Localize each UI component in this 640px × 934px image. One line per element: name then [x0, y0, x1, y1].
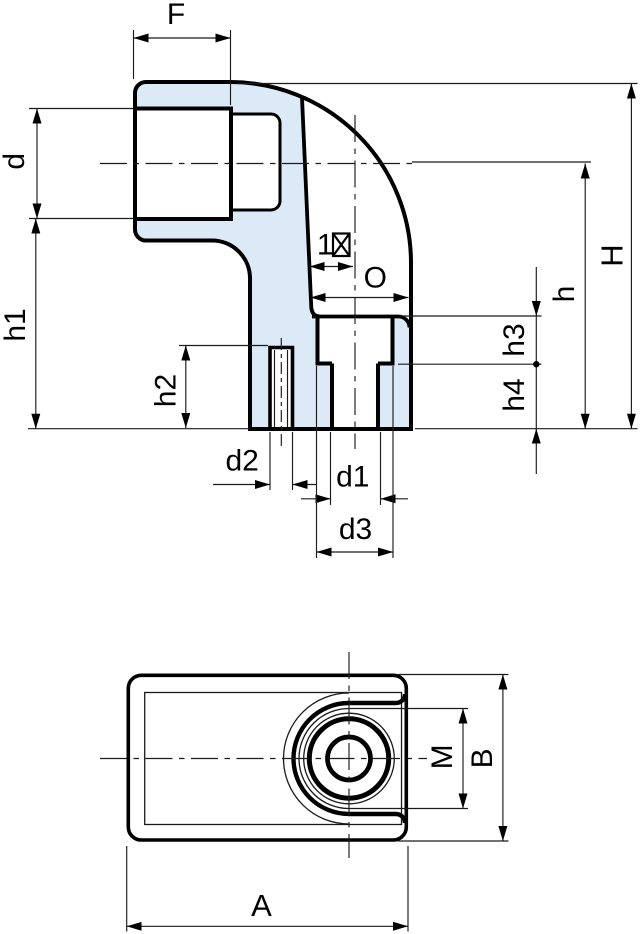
dimension h	[412, 162, 591, 429]
leg centerline	[354, 115, 356, 449]
body outline	[135, 82, 411, 429]
white inner socket bore	[231, 114, 280, 210]
dimension M	[406, 709, 468, 809]
dimension 1x chamfer	[310, 266, 354, 268]
lower bore walls d1	[332, 364, 378, 430]
dimension h1	[28, 219, 250, 429]
bore circle (thick)	[328, 737, 371, 780]
bottom face edge	[249, 427, 411, 431]
svg-text:O: O	[364, 262, 387, 295]
white counterbore	[318, 317, 393, 364]
boss circle (thick)	[309, 719, 388, 798]
horizontal centerline	[100, 758, 427, 760]
boss inner U (thin)	[299, 709, 406, 809]
svg-text:B: B	[466, 748, 499, 768]
socket inner bore outline	[231, 114, 280, 210]
dimension d	[29, 109, 133, 219]
svg-text:A: A	[251, 888, 272, 923]
svg-text:d1: d1	[336, 461, 369, 494]
svg-text:H: H	[595, 244, 630, 266]
svg-text:1: 1	[317, 229, 334, 262]
svg-text:h3: h3	[498, 323, 531, 356]
thin circle	[304, 713, 395, 804]
dimension A	[127, 846, 408, 932]
boss blend arc (thin)	[284, 693, 350, 824]
dimension O	[311, 297, 409, 299]
slot centerline	[280, 338, 282, 446]
tapered bore wall	[302, 97, 320, 316]
svg-text:d2: d2	[226, 445, 259, 478]
white socket cavity	[135, 109, 231, 220]
svg-text:d3: d3	[339, 513, 372, 546]
body blue fill	[135, 82, 411, 429]
inner face edge (thin)	[145, 693, 402, 825]
dimension B	[398, 675, 509, 842]
svg-text:h4: h4	[498, 378, 531, 411]
svg-text:h2: h2	[150, 374, 183, 407]
boss bottom hook	[396, 814, 405, 823]
vertical centerline	[348, 652, 350, 858]
shoulder face with fillet	[312, 317, 410, 328]
svg-text:F: F	[167, 0, 185, 31]
socket centerline	[100, 163, 412, 165]
dimensions h3 / h4	[398, 267, 542, 474]
svg-text:M: M	[426, 744, 459, 769]
slot thread lines	[275, 350, 288, 427]
dimension h2	[179, 346, 268, 429]
svg-text:d: d	[0, 153, 31, 170]
svg-text:h1: h1	[0, 308, 32, 341]
svg-text:h: h	[548, 286, 581, 303]
white lower bore	[332, 364, 378, 430]
socket outer box	[135, 109, 231, 220]
outer body outline	[128, 675, 406, 840]
dimension d1	[301, 432, 408, 505]
slot hole d2 outline	[270, 348, 293, 430]
counterbore walls	[318, 317, 393, 364]
dimension F	[134, 30, 231, 105]
boss outer U (thick)	[294, 703, 396, 814]
boss top hook	[396, 694, 405, 703]
white cavity (unsectioned interior of elbow)	[302, 97, 411, 327]
dimension H	[237, 84, 638, 429]
dimension d3	[317, 366, 394, 558]
white slot hole d2	[270, 348, 293, 430]
dimension d2	[213, 432, 316, 490]
